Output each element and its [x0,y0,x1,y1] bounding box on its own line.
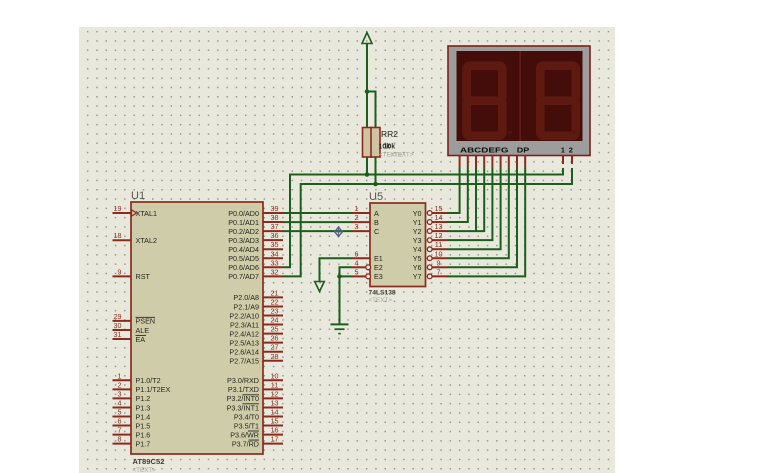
pin 10 P3.0/RXD [263,379,283,381]
svg-text:Y0: Y0 [413,209,422,218]
pin 13 Y2 [427,229,432,234]
display pin A [459,156,461,169]
svg-text:15: 15 [435,204,443,213]
svg-text:14: 14 [271,408,279,417]
wire R1 top lead to power [366,44,368,128]
svg-text:P1.4: P1.4 [136,412,151,421]
chip U1 AT89C52 body [131,202,263,454]
svg-text:12: 12 [435,231,443,240]
svg-text:ABCDEFG: ABCDEFG [460,146,509,155]
svg-text:P1.0/T2: P1.0/T2 [136,376,161,385]
display common pins [562,156,564,165]
svg-text:23: 23 [271,307,279,316]
svg-text:19: 19 [114,204,122,213]
wire E3 joins ground wire [340,275,352,277]
svg-text:31: 31 [114,330,122,339]
svg-text:Y4: Y4 [413,245,422,254]
svg-text:4: 4 [355,258,359,267]
pin 8 P1.7 [113,443,132,445]
pin 14 Y1 [427,220,432,225]
svg-text:17: 17 [271,435,279,444]
junction E3 [337,274,342,279]
svg-text:8: 8 [118,435,122,444]
svg-text:12: 12 [271,389,279,398]
pin 12 Y3 [427,238,432,243]
svg-text:39: 39 [271,204,279,213]
resistor R2 (10k) [371,128,380,158]
svg-text:EA: EA [136,335,146,344]
svg-text:P3.3/INT1: P3.3/INT1 [227,403,259,412]
pin 17 P3.7/RD [263,443,283,445]
svg-text:Y2: Y2 [413,227,422,236]
svg-text:P0.3/AD3: P0.3/AD3 [228,236,259,245]
pin 32 P0.7/AD7 [263,275,283,277]
wire Y1 to display segment pin [447,168,468,222]
wire P0.6 to digit1 bus [283,168,563,267]
svg-text:P3.0/RXD: P3.0/RXD [227,376,259,385]
wire Y0 to display segment pin [447,168,460,213]
pin 1 P1.0/T2 [113,379,132,381]
svg-text:E3: E3 [374,272,383,281]
resistor R1 (10k) [363,128,372,158]
svg-text:1: 1 [355,204,359,213]
svg-text:22: 22 [271,297,279,306]
svg-text:Y5: Y5 [413,254,422,263]
pin 10 Y5 [427,256,432,261]
pin 3 P1.2 [113,397,132,399]
svg-text:P2.3/A11: P2.3/A11 [230,320,259,329]
pin 5 E3 [352,275,366,277]
svg-text:P3.1/TXD: P3.1/TXD [228,385,259,394]
wire P0.7 to digit2 bus [283,168,572,276]
pin 6 P1.5 [113,425,132,427]
pin 2 P1.1/T2EX [113,388,132,390]
svg-text:14: 14 [435,213,443,222]
pin 21 P2.0/A8 [263,296,283,298]
pin 4 P1.3 [113,406,132,408]
pin 14 P3.4/T0 [263,416,283,418]
svg-text:P2.0/A8: P2.0/A8 [233,293,259,302]
pin 9 RST [113,275,132,277]
svg-text:9: 9 [118,267,122,276]
svg-text:2: 2 [355,213,359,222]
svg-text:18: 18 [114,231,122,240]
power terminal arrow (VCC) [362,33,372,44]
wire R1 bottom lead [366,157,368,175]
svg-text:A: A [374,209,379,218]
svg-text:Y1: Y1 [413,218,422,227]
svg-text:RR2: RR2 [381,129,398,139]
svg-text:6: 6 [118,417,122,426]
svg-text:P0.1/AD1: P0.1/AD1 [228,218,259,227]
display pin B [467,156,469,169]
pin 11 Y4 [427,247,432,252]
junction R2 on bus2 [373,182,378,187]
display pin DP [524,156,526,169]
display pin E [491,156,493,169]
svg-text:P2.1/A9: P2.1/A9 [233,302,259,311]
svg-text:P0.0/AD0: P0.0/AD0 [228,209,259,218]
display pin F [500,156,502,169]
svg-text:35: 35 [271,240,279,249]
pin 22 P2.1/A9 [263,305,283,307]
node marker on net C [334,226,343,237]
pin 39 P0.0/AD0 [263,212,283,214]
pin 2 B [352,221,371,223]
schematic sheet background with dot grid [79,27,615,473]
pin 28 P2.7/A15 [263,360,283,362]
svg-text:74LS138: 74LS138 [369,290,396,297]
svg-text:C: C [374,227,379,236]
wire from unconnected display pin [475,168,477,231]
svg-text:7: 7 [437,267,441,276]
svg-text:P3.4/T0: P3.4/T0 [234,412,259,421]
pin 31 EA [113,338,132,340]
pin 34 P0.5/AD5 [263,257,283,259]
pin 36 P0.3/AD3 [263,239,283,241]
svg-text:5: 5 [355,267,359,276]
pin 18 XTAL2 [113,239,132,241]
pin 19 XTAL1 [113,212,132,214]
svg-text:7: 7 [118,426,122,435]
wire Y5 to display segment pin [447,168,509,258]
svg-text:13: 13 [435,222,443,231]
wire Y2 to display segment pin [447,168,484,231]
svg-text:P2.5/A13: P2.5/A13 [229,338,259,347]
pin XTAL1 clock arrow [132,210,137,216]
pin 11 P3.1/TXD [263,388,283,390]
pin 25 P2.4/A12 [263,333,283,335]
pin 33 P0.6/AD6 [263,266,283,268]
svg-text:36: 36 [271,231,279,240]
svg-text:5: 5 [118,408,122,417]
svg-text:26: 26 [271,334,279,343]
display pin G [508,156,510,169]
junction power branch [365,89,370,94]
svg-text:E1: E1 [374,254,383,263]
svg-text:25: 25 [271,325,279,334]
svg-text:P0.7/AD7: P0.7/AD7 [228,272,259,281]
wire Y3 to display segment pin [447,168,492,240]
pin 38 P0.1/AD1 [263,221,283,223]
svg-text:AT89C52: AT89C52 [133,457,165,466]
pin 5 P1.4 [113,416,132,418]
svg-text:P3.5/T1: P3.5/T1 [234,421,259,430]
svg-text:32: 32 [271,267,279,276]
svg-text:1: 1 [561,146,565,155]
display pin D [483,156,485,169]
wire E2 to ground [340,267,352,323]
svg-text:15: 15 [271,417,279,426]
svg-text:P3.2/INT0: P3.2/INT0 [227,394,259,403]
svg-text:U5: U5 [369,191,383,203]
pin 4 E2 [352,266,366,268]
svg-text:<TEXT>: <TEXT> [390,152,414,159]
wire Y6 to display segment pin [447,168,517,267]
pin 12 P3.2/INT0 [263,397,283,399]
pin 23 P2.2/A10 [263,315,283,317]
pin 7 Y7 [427,274,432,279]
svg-text:RST: RST [136,272,151,281]
svg-text:29: 29 [114,312,122,321]
pin 29 PSEN [113,320,132,322]
svg-text:<TEXT>: <TEXT> [369,297,393,304]
wire P0.0 to A [283,212,352,214]
wire R2 bottom lead [375,157,377,184]
wire R2 top lead branch [367,92,376,128]
svg-text:P0.6/AD6: P0.6/AD6 [228,263,259,272]
pin 13 P3.3/INT1 [263,406,283,408]
svg-text:21: 21 [271,288,279,297]
svg-text:10k: 10k [384,144,396,151]
svg-text:E2: E2 [374,263,383,272]
display pin NC [516,156,518,169]
svg-text:P3.7/RD: P3.7/RD [232,439,259,448]
svg-text:P1.2: P1.2 [136,394,151,403]
svg-text:27: 27 [271,343,279,352]
digit 1 eight [467,66,503,136]
svg-text:P1.7: P1.7 [136,439,151,448]
svg-text:P2.4/A12: P2.4/A12 [229,329,259,338]
svg-text:24: 24 [271,316,279,325]
svg-text:10: 10 [271,371,279,380]
svg-text:16: 16 [271,426,279,435]
wire Y7 to display segment pin [447,168,525,276]
svg-text:P0.2/AD2: P0.2/AD2 [228,227,259,236]
pin 35 P0.4/AD4 [263,248,283,250]
svg-text:28: 28 [271,352,279,361]
pin 7 P1.6 [113,434,132,436]
wire Y4 to display segment pin [447,168,501,249]
wire P0.1 to B [283,221,352,223]
svg-text:Y3: Y3 [413,236,422,245]
svg-text:P1.5: P1.5 [136,421,151,430]
svg-text:P1.3: P1.3 [136,403,151,412]
svg-text:XTAL2: XTAL2 [136,236,157,245]
pin 26 P2.5/A13 [263,342,283,344]
svg-text:Y7: Y7 [413,272,422,281]
wire P0.2 to C [283,230,352,232]
svg-text:4: 4 [118,398,122,407]
pin 37 P0.2/AD2 [263,230,283,232]
svg-text:37: 37 [271,222,279,231]
pin 15 P3.5/T1 [263,425,283,427]
7-segment display frame [448,46,590,156]
pin 6 E1 [352,257,371,259]
input terminal arrow at E1 [315,282,325,292]
svg-text:P0.4/AD4: P0.4/AD4 [228,245,259,254]
pin 16 P3.6/WR [263,434,283,436]
pin 3 C [352,230,371,232]
svg-text:3: 3 [118,389,122,398]
chip U5 74LS138 body [370,203,426,287]
svg-text:13: 13 [271,398,279,407]
svg-text:P2.7/A15: P2.7/A15 [229,357,259,366]
digit separator line [519,51,521,141]
ground symbol [331,323,349,325]
svg-text:P3.6/WR: P3.6/WR [230,430,259,439]
pin 27 P2.6/A14 [263,351,283,353]
svg-text:38: 38 [271,213,279,222]
svg-text:U1: U1 [131,190,145,202]
svg-text:3: 3 [355,222,359,231]
svg-text:Y6: Y6 [413,263,422,272]
svg-text:1: 1 [118,371,122,380]
svg-text:P2.6/A14: P2.6/A14 [229,348,259,357]
pin 30 ALE [113,329,132,331]
svg-text:34: 34 [271,249,279,258]
svg-text:PSEN: PSEN [136,317,156,326]
svg-text:P1.6: P1.6 [136,430,151,439]
svg-text:2: 2 [569,146,573,155]
pin 1 A [352,212,371,214]
svg-text:XTAL1: XTAL1 [136,209,157,218]
display pin C [475,156,477,169]
svg-text:30: 30 [114,321,122,330]
digit 2 eight [540,66,576,136]
svg-text:9: 9 [437,258,441,267]
svg-text:2: 2 [118,380,122,389]
svg-text:33: 33 [271,258,279,267]
pin 9 Y6 [427,265,432,270]
svg-text:11: 11 [271,380,278,389]
svg-text:10: 10 [435,249,443,258]
svg-text:DP: DP [517,146,530,155]
svg-text:B: B [374,218,379,227]
junction R1 on bus1 [365,172,370,177]
svg-text:<TEXT>: <TEXT> [133,467,157,473]
svg-text:P2.2/A10: P2.2/A10 [229,311,259,320]
svg-text:6: 6 [355,249,359,258]
pin 15 Y0 [427,211,432,216]
pin 24 P2.3/A11 [263,324,283,326]
svg-text:P1.1/T2EX: P1.1/T2EX [136,385,171,394]
svg-text:ALE: ALE [136,326,150,335]
svg-text:11: 11 [435,240,442,249]
wire E1 to input terminal [320,258,352,281]
display dark panel [457,51,583,141]
svg-text:P0.5/AD5: P0.5/AD5 [228,254,259,263]
